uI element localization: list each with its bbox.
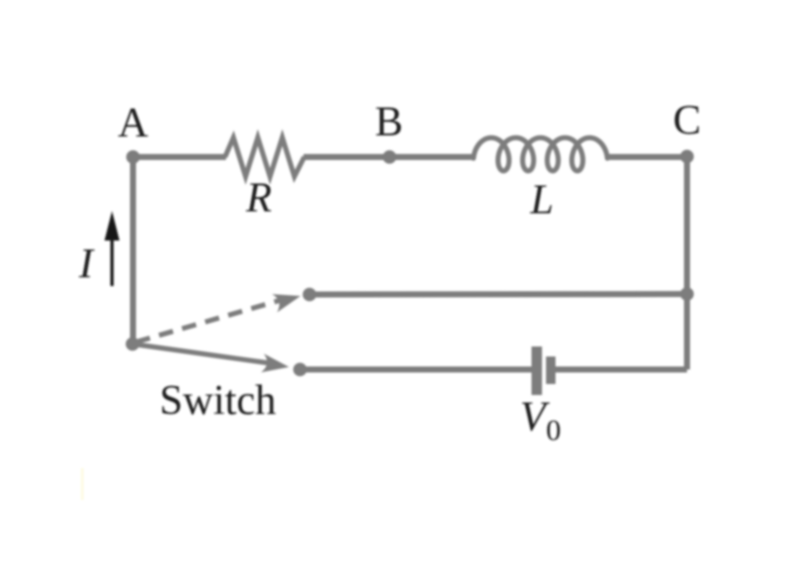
svg-text:0: 0 xyxy=(546,414,561,447)
switch dashed arm (alternate position) xyxy=(136,300,281,342)
wire inductor to C xyxy=(607,154,688,160)
svg-text:A: A xyxy=(118,101,149,147)
wire top-left A to resistor xyxy=(133,154,226,160)
current arrow I head xyxy=(105,211,120,241)
svg-text:I: I xyxy=(78,242,95,288)
wire left vertical A down xyxy=(130,157,136,344)
wire resistor to B to inductor xyxy=(304,154,475,160)
battery V0 long plate xyxy=(532,347,543,396)
node switch upper throw dot xyxy=(303,288,317,302)
battery V0 short plate xyxy=(546,357,556,385)
current arrow I shaft xyxy=(110,238,113,286)
svg-text:Switch: Switch xyxy=(160,378,277,424)
svg-text:R: R xyxy=(245,176,272,222)
node switch pole dot xyxy=(126,337,140,351)
svg-text:L: L xyxy=(529,178,553,224)
switch dashed arm arrowhead xyxy=(272,287,303,313)
node B junction dot xyxy=(383,150,397,164)
wire right vertical C down xyxy=(684,156,690,370)
wire middle horizontal (open switch throw) xyxy=(310,291,688,298)
switch solid arm wire xyxy=(133,344,272,364)
resistor R1 zigzag xyxy=(225,138,304,177)
svg-text:C: C xyxy=(673,98,701,144)
switch solid arm arrowhead xyxy=(261,354,291,377)
node C junction dot xyxy=(680,150,694,164)
inductor L1 coil xyxy=(474,138,608,171)
node switch lower throw dot xyxy=(293,363,307,377)
node right middle junction dot xyxy=(680,287,694,301)
svg-text:B: B xyxy=(375,100,403,146)
scan artifact faint line xyxy=(81,468,84,500)
wire battery to right vertical xyxy=(555,367,687,373)
node A junction dot xyxy=(126,150,140,164)
wire bottom left (closed throw to battery) xyxy=(300,367,533,373)
